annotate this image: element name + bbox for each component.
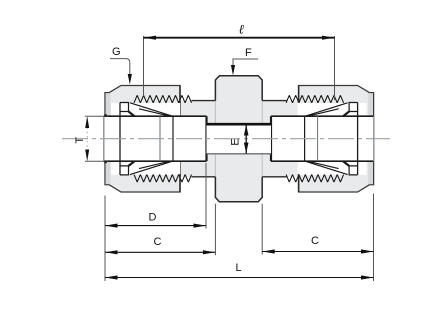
centerline xyxy=(62,138,390,140)
dimension E center bore xyxy=(230,124,249,154)
svg-text:G: G xyxy=(112,46,121,58)
left back ferrule xyxy=(120,103,135,175)
right threads bottom xyxy=(286,175,344,183)
right front ferrule xyxy=(305,103,348,175)
dimension C left xyxy=(105,204,215,256)
right nut front face xyxy=(298,86,300,193)
svg-text:E: E xyxy=(230,138,242,145)
svg-text:F: F xyxy=(245,47,252,59)
dimension l top xyxy=(144,22,335,101)
svg-text:T: T xyxy=(74,137,86,144)
left tube xyxy=(104,116,207,161)
dimension L bottom xyxy=(105,262,374,280)
dimension D xyxy=(105,163,206,281)
center bore xyxy=(207,124,272,154)
dimension T left xyxy=(74,114,107,163)
left threads bottom xyxy=(134,175,192,183)
svg-text:D: D xyxy=(149,212,157,224)
body hex boss xyxy=(215,76,262,202)
left nut front face xyxy=(179,86,181,193)
nut interior white pockets xyxy=(111,103,367,175)
body neck outline xyxy=(192,101,287,177)
svg-text:ℓ: ℓ xyxy=(239,22,245,37)
label F with leader xyxy=(231,47,258,76)
left nut body xyxy=(105,86,180,193)
right tube xyxy=(271,116,374,161)
label G with leader xyxy=(110,46,132,85)
left threads top xyxy=(134,95,192,103)
right nut body xyxy=(299,86,374,193)
left front ferrule xyxy=(130,103,173,175)
right threads top xyxy=(286,95,344,103)
right back ferrule xyxy=(343,103,358,175)
svg-text:L: L xyxy=(235,262,241,274)
body neck fill xyxy=(180,101,299,177)
svg-text:C: C xyxy=(154,236,162,248)
svg-text:C: C xyxy=(311,235,319,247)
dimension C right xyxy=(262,194,373,282)
